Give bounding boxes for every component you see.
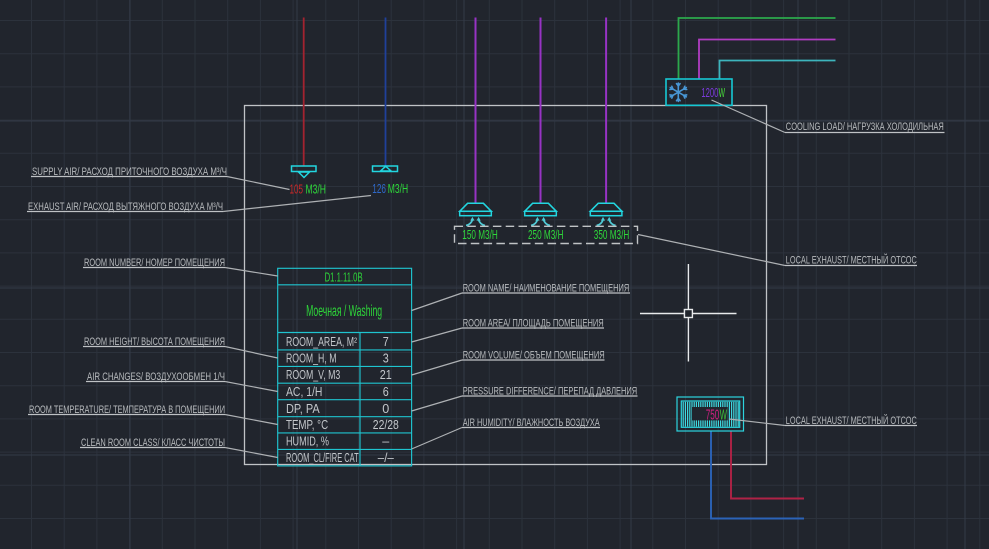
svg-text:6: 6 [383, 385, 389, 399]
room data table [278, 268, 412, 466]
exhaust diffuser [373, 166, 398, 172]
svg-text:250 M3/H: 250 M3/H [528, 227, 564, 242]
svg-text:TEMP, °C: TEMP, °C [286, 418, 328, 432]
svg-text:AIR HUMIDITY/ ВЛАЖНОСТЬ ВОЗДУХ: AIR HUMIDITY/ ВЛАЖНОСТЬ ВОЗДУХА [463, 417, 600, 429]
svg-text:AIR CHANGES/ ВОЗДУХООБМЕН 1/Ч: AIR CHANGES/ ВОЗДУХООБМЕН 1/Ч [87, 371, 225, 383]
leader local exhaust lower [729, 419, 785, 426]
cooling unit box [666, 79, 732, 105]
svg-text:ROOM NAME/ НАИМЕНОВАНИЕ ПОМЕЩЕ: ROOM NAME/ НАИМЕНОВАНИЕ ПОМЕЩЕНИЯ [463, 283, 630, 295]
local exhaust hood 1 [460, 203, 492, 215]
leader room height [225, 347, 278, 359]
leader pressure difference [412, 396, 462, 411]
svg-text:ROOM NUMBER/ НОМЕР ПОМЕЩЕНИЯ: ROOM NUMBER/ НОМЕР ПОМЕЩЕНИЯ [84, 257, 225, 269]
table row values [373, 335, 399, 465]
wire cooling green [679, 18, 836, 79]
leader supply air [227, 177, 290, 190]
leader air changes [225, 382, 278, 392]
svg-text:SUPPLY AIR/ РАСХОД ПРИТОЧНОГО: SUPPLY AIR/ РАСХОД ПРИТОЧНОГО ВОЗДУХА М³… [32, 166, 227, 178]
leader local exhaust upper [638, 235, 785, 266]
leader room area [412, 328, 462, 342]
local exhaust hood 3 [590, 203, 622, 215]
leader room number [225, 268, 278, 277]
svg-text:ROOM_CL/FIRE CAT: ROOM_CL/FIRE CAT [286, 451, 359, 465]
svg-text:ROOM_V, M3: ROOM_V, M3 [286, 368, 340, 382]
table row labels [286, 335, 359, 465]
svg-text:PRESSURE DIFFERENCE/ ПЕРЕПАД Д: PRESSURE DIFFERENCE/ ПЕРЕПАД ДАВЛЕНИЯ [463, 386, 638, 398]
wire exhaust blue vertical [385, 18, 387, 167]
svg-text:0: 0 [382, 402, 389, 416]
svg-text:CLEAN ROOM CLASS/ КЛАСС ЧИСТОТ: CLEAN ROOM CLASS/ КЛАСС ЧИСТОТЫ [81, 437, 225, 449]
wire hood2 purple vertical [540, 18, 542, 204]
wire heater blue [711, 431, 804, 519]
room outline [245, 106, 767, 465]
svg-text:ROOM HEIGHT/ ВЫСОТА ПОМЕЩЕНИЯ: ROOM HEIGHT/ ВЫСОТА ПОМЕЩЕНИЯ [84, 336, 225, 348]
svg-text:M3/H: M3/H [306, 183, 327, 197]
svg-text:22/28: 22/28 [373, 418, 399, 432]
leader clean room class [225, 448, 278, 458]
leader lines [223, 100, 785, 458]
leader air humidity [412, 428, 462, 450]
crosshair cursor [640, 264, 737, 362]
wire hood3 purple vertical [605, 18, 607, 204]
wire supply red vertical [303, 18, 305, 167]
svg-text:LOCAL EXHAUST/ МЕСТНЫЙ ОТСОС: LOCAL EXHAUST/ МЕСТНЫЙ ОТСОС [786, 414, 917, 427]
snowflake [670, 83, 687, 101]
svg-text:ROOM VOLUME/ ОБЪЕМ ПОМЕЩЕНИЯ: ROOM VOLUME/ ОБЪЕМ ПОМЕЩЕНИЯ [463, 350, 605, 362]
svg-text:COOLING LOAD/ НАГРУЗКА ХОЛОДИЛ: COOLING LOAD/ НАГРУЗКА ХОЛОДИЛЬНАЯ [786, 121, 944, 133]
svg-text:1200: 1200 [701, 86, 718, 100]
svg-text:EXHAUST AIR/ РАСХОД ВЫТЯЖНОГО: EXHAUST AIR/ РАСХОД ВЫТЯЖНОГО ВОЗДУХА М³… [28, 201, 223, 213]
svg-text:D1.1.11.0B: D1.1.11.0B [325, 269, 363, 284]
svg-text:–/–: –/– [378, 451, 394, 465]
svg-text:Моечная / Washing: Моечная / Washing [306, 303, 382, 320]
leader cooling load [712, 100, 786, 133]
svg-text:7: 7 [383, 335, 389, 349]
svg-text:126: 126 [372, 182, 386, 196]
label underlines [27, 133, 945, 448]
svg-text:LOCAL EXHAUST/ МЕСТНЫЙ ОТСОС: LOCAL EXHAUST/ МЕСТНЫЙ ОТСОС [786, 254, 917, 267]
label texts [28, 121, 944, 449]
dashed box around hood flows [455, 226, 638, 243]
svg-text:150 M3/H: 150 M3/H [462, 227, 498, 242]
svg-text:3: 3 [383, 352, 389, 366]
svg-text:ROOM TEMPERATURE/ ТЕМПЕРАТУРА: ROOM TEMPERATURE/ ТЕМПЕРАТУРА В ПОМЕЩЕНИ… [29, 404, 225, 416]
electric heater symbol [677, 397, 744, 431]
svg-text:AC, 1/H: AC, 1/H [286, 385, 322, 399]
svg-text:HUMID, %: HUMID, % [286, 435, 329, 449]
leader exhaust air [223, 196, 371, 212]
svg-text:21: 21 [380, 368, 392, 382]
svg-text:–: – [382, 435, 389, 449]
wire cooling magenta [699, 40, 836, 80]
local exhaust hood 2 [525, 203, 557, 215]
svg-text:W: W [719, 86, 726, 100]
svg-text:350 M3/H: 350 M3/H [594, 227, 630, 242]
svg-text:ROOM_AREA, M²: ROOM_AREA, M² [286, 335, 357, 349]
svg-text:750: 750 [706, 407, 720, 423]
leader room name [412, 293, 462, 311]
wire hood1 purple vertical [475, 18, 477, 204]
svg-text:ROOM AREA/ ПЛОЩАДЬ ПОМЕЩЕНИЯ: ROOM AREA/ ПЛОЩАДЬ ПОМЕЩЕНИЯ [463, 318, 604, 330]
leader room temperature [225, 415, 278, 425]
svg-text:DP, PA: DP, PA [286, 402, 320, 416]
svg-text:M3/H: M3/H [388, 182, 408, 196]
svg-text:W: W [720, 407, 727, 423]
svg-text:ROOM_H, M: ROOM_H, M [286, 352, 337, 366]
svg-text:105: 105 [290, 183, 304, 197]
wire cooling teal [720, 61, 836, 80]
leader room volume [412, 360, 462, 375]
supply diffuser [292, 166, 317, 178]
wire heater red [731, 431, 804, 499]
